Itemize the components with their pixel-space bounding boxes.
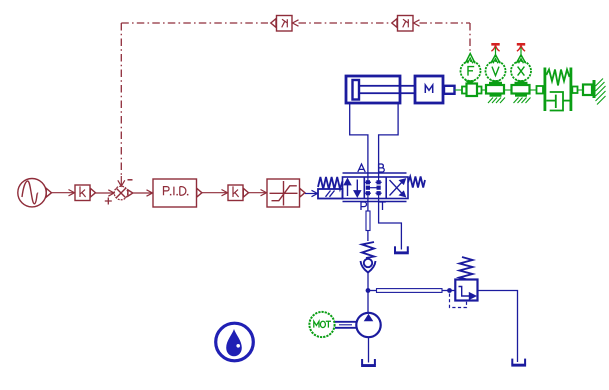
- wall hatch: [596, 79, 606, 105]
- pipe junction down to pump: [367, 291, 369, 314]
- feedback gain block K1 (mirrored): [271, 16, 299, 32]
- relief valve RV1: [455, 280, 477, 301]
- port label A: [358, 164, 365, 172]
- link V to X: [504, 89, 512, 91]
- velocity sensor base bar: [490, 95, 502, 97]
- motor shaft coupling: [335, 322, 356, 328]
- link M coupling to force sensor: [455, 89, 463, 91]
- position sensor base bar: [515, 95, 527, 97]
- feedback dash-dot wire top horizontal left segment: [121, 22, 268, 24]
- wire summing junction to PID: [133, 190, 153, 196]
- feedback dash-dot wire middle segment: [299, 22, 390, 24]
- valve left position arrows: [344, 179, 360, 197]
- mass block M: [415, 76, 443, 103]
- junction node J1: [366, 288, 371, 293]
- wire G1 to K1 gain: [52, 190, 75, 196]
- position sensor X output arrow: [516, 48, 525, 64]
- gain block k2: [228, 185, 249, 201]
- relief valve spring: [460, 257, 473, 280]
- force sensor F output arrow: [465, 54, 475, 64]
- link F to V: [482, 89, 487, 91]
- pipe pump to tank: [368, 337, 370, 362]
- position sensor body: [512, 85, 530, 94]
- pipe cylinder left port to valve A: [350, 103, 368, 177]
- position sensor X terminator: [517, 44, 525, 51]
- coupling block to spring-damper: [537, 86, 544, 94]
- tank T1 (pump suction): [361, 359, 376, 367]
- tank T3 (relief outlet): [511, 359, 526, 367]
- wire saturation to valve solenoid (signal to hydraulic): [305, 190, 318, 196]
- summing junction S1: [114, 186, 133, 200]
- force sensor F: [461, 61, 481, 81]
- velocity sensor V output arrow: [491, 48, 500, 64]
- PID controller block: [153, 179, 202, 207]
- link X to spring-damper: [530, 89, 537, 91]
- pump P1: [356, 313, 380, 337]
- wire PID to gain k2: [202, 190, 228, 196]
- pipe relief valve to tank: [478, 291, 518, 363]
- velocity sensor body: [486, 85, 504, 94]
- valve proportional solenoid: [318, 189, 343, 199]
- hydraulic cylinder C1: [346, 76, 415, 103]
- tank T2 (valve return): [394, 246, 409, 254]
- check valve CV1: [361, 242, 376, 273]
- coupling stub M to force sensor: [444, 86, 455, 94]
- pipe valve P port down: [367, 199, 369, 212]
- electric motor MOT: [309, 312, 334, 337]
- pump outlet triangle: [364, 314, 374, 322]
- wire k to summing junction: [96, 190, 115, 196]
- spring-damper right plate: [570, 68, 573, 112]
- pipe junction to relief valve: [450, 290, 456, 292]
- force sensor pedestal: [465, 80, 476, 84]
- pipe valve T port to tank: [379, 199, 402, 250]
- hydraulic line component to relief valve: [368, 289, 450, 293]
- valve left spring: [318, 177, 343, 189]
- valve right spring: [408, 177, 425, 188]
- port label P: [361, 202, 366, 210]
- load damper: [546, 92, 569, 111]
- oil drop logo: [216, 323, 254, 361]
- mirrored K glyph of K2: [403, 19, 409, 27]
- velocity sensor ground hatch: [488, 98, 505, 104]
- relief valve internal arrow: [459, 287, 476, 300]
- feedback gain block K2 (mirrored): [392, 16, 420, 32]
- port label T: [379, 202, 386, 210]
- wire k2 to saturation: [249, 190, 267, 196]
- position sensor X: [511, 61, 531, 81]
- valve centre position blocked ports: [365, 177, 382, 199]
- label - (summing sign): [128, 179, 133, 181]
- label + (summing sign): [105, 198, 112, 205]
- feedback dash-dot wire vertical into summing junction: [118, 23, 125, 186]
- position sensor pedestal: [515, 80, 528, 84]
- force sensor body: [462, 84, 482, 97]
- wall anchor: [593, 80, 596, 98]
- junction node J2: [447, 288, 452, 293]
- velocity sensor V: [486, 61, 506, 81]
- pipe to check valve: [367, 231, 369, 242]
- pipe check valve to junction: [367, 273, 369, 291]
- spring-damper left plate: [544, 68, 547, 112]
- feedback dash-dot wire right segment: [420, 23, 471, 51]
- port label B: [379, 164, 385, 172]
- proportional valve V1 body: [343, 173, 409, 202]
- signal generator G1 (sine source): [18, 179, 52, 207]
- mirrored K glyph of K1: [282, 19, 288, 27]
- position sensor ground hatch: [514, 98, 531, 104]
- pipe cylinder right port to valve B: [379, 103, 399, 177]
- link spring-damper to wall: [572, 85, 594, 96]
- hydraulic line component on P pipe: [366, 211, 370, 231]
- saturation block SAT: [267, 179, 305, 207]
- gain block k (input scaling): [75, 185, 96, 201]
- velocity sensor V terminator: [491, 44, 499, 51]
- velocity sensor pedestal: [489, 80, 502, 84]
- load spring: [546, 70, 569, 86]
- relief valve pilot dashed line: [450, 294, 467, 308]
- valve right position crossed arrows: [390, 179, 406, 197]
